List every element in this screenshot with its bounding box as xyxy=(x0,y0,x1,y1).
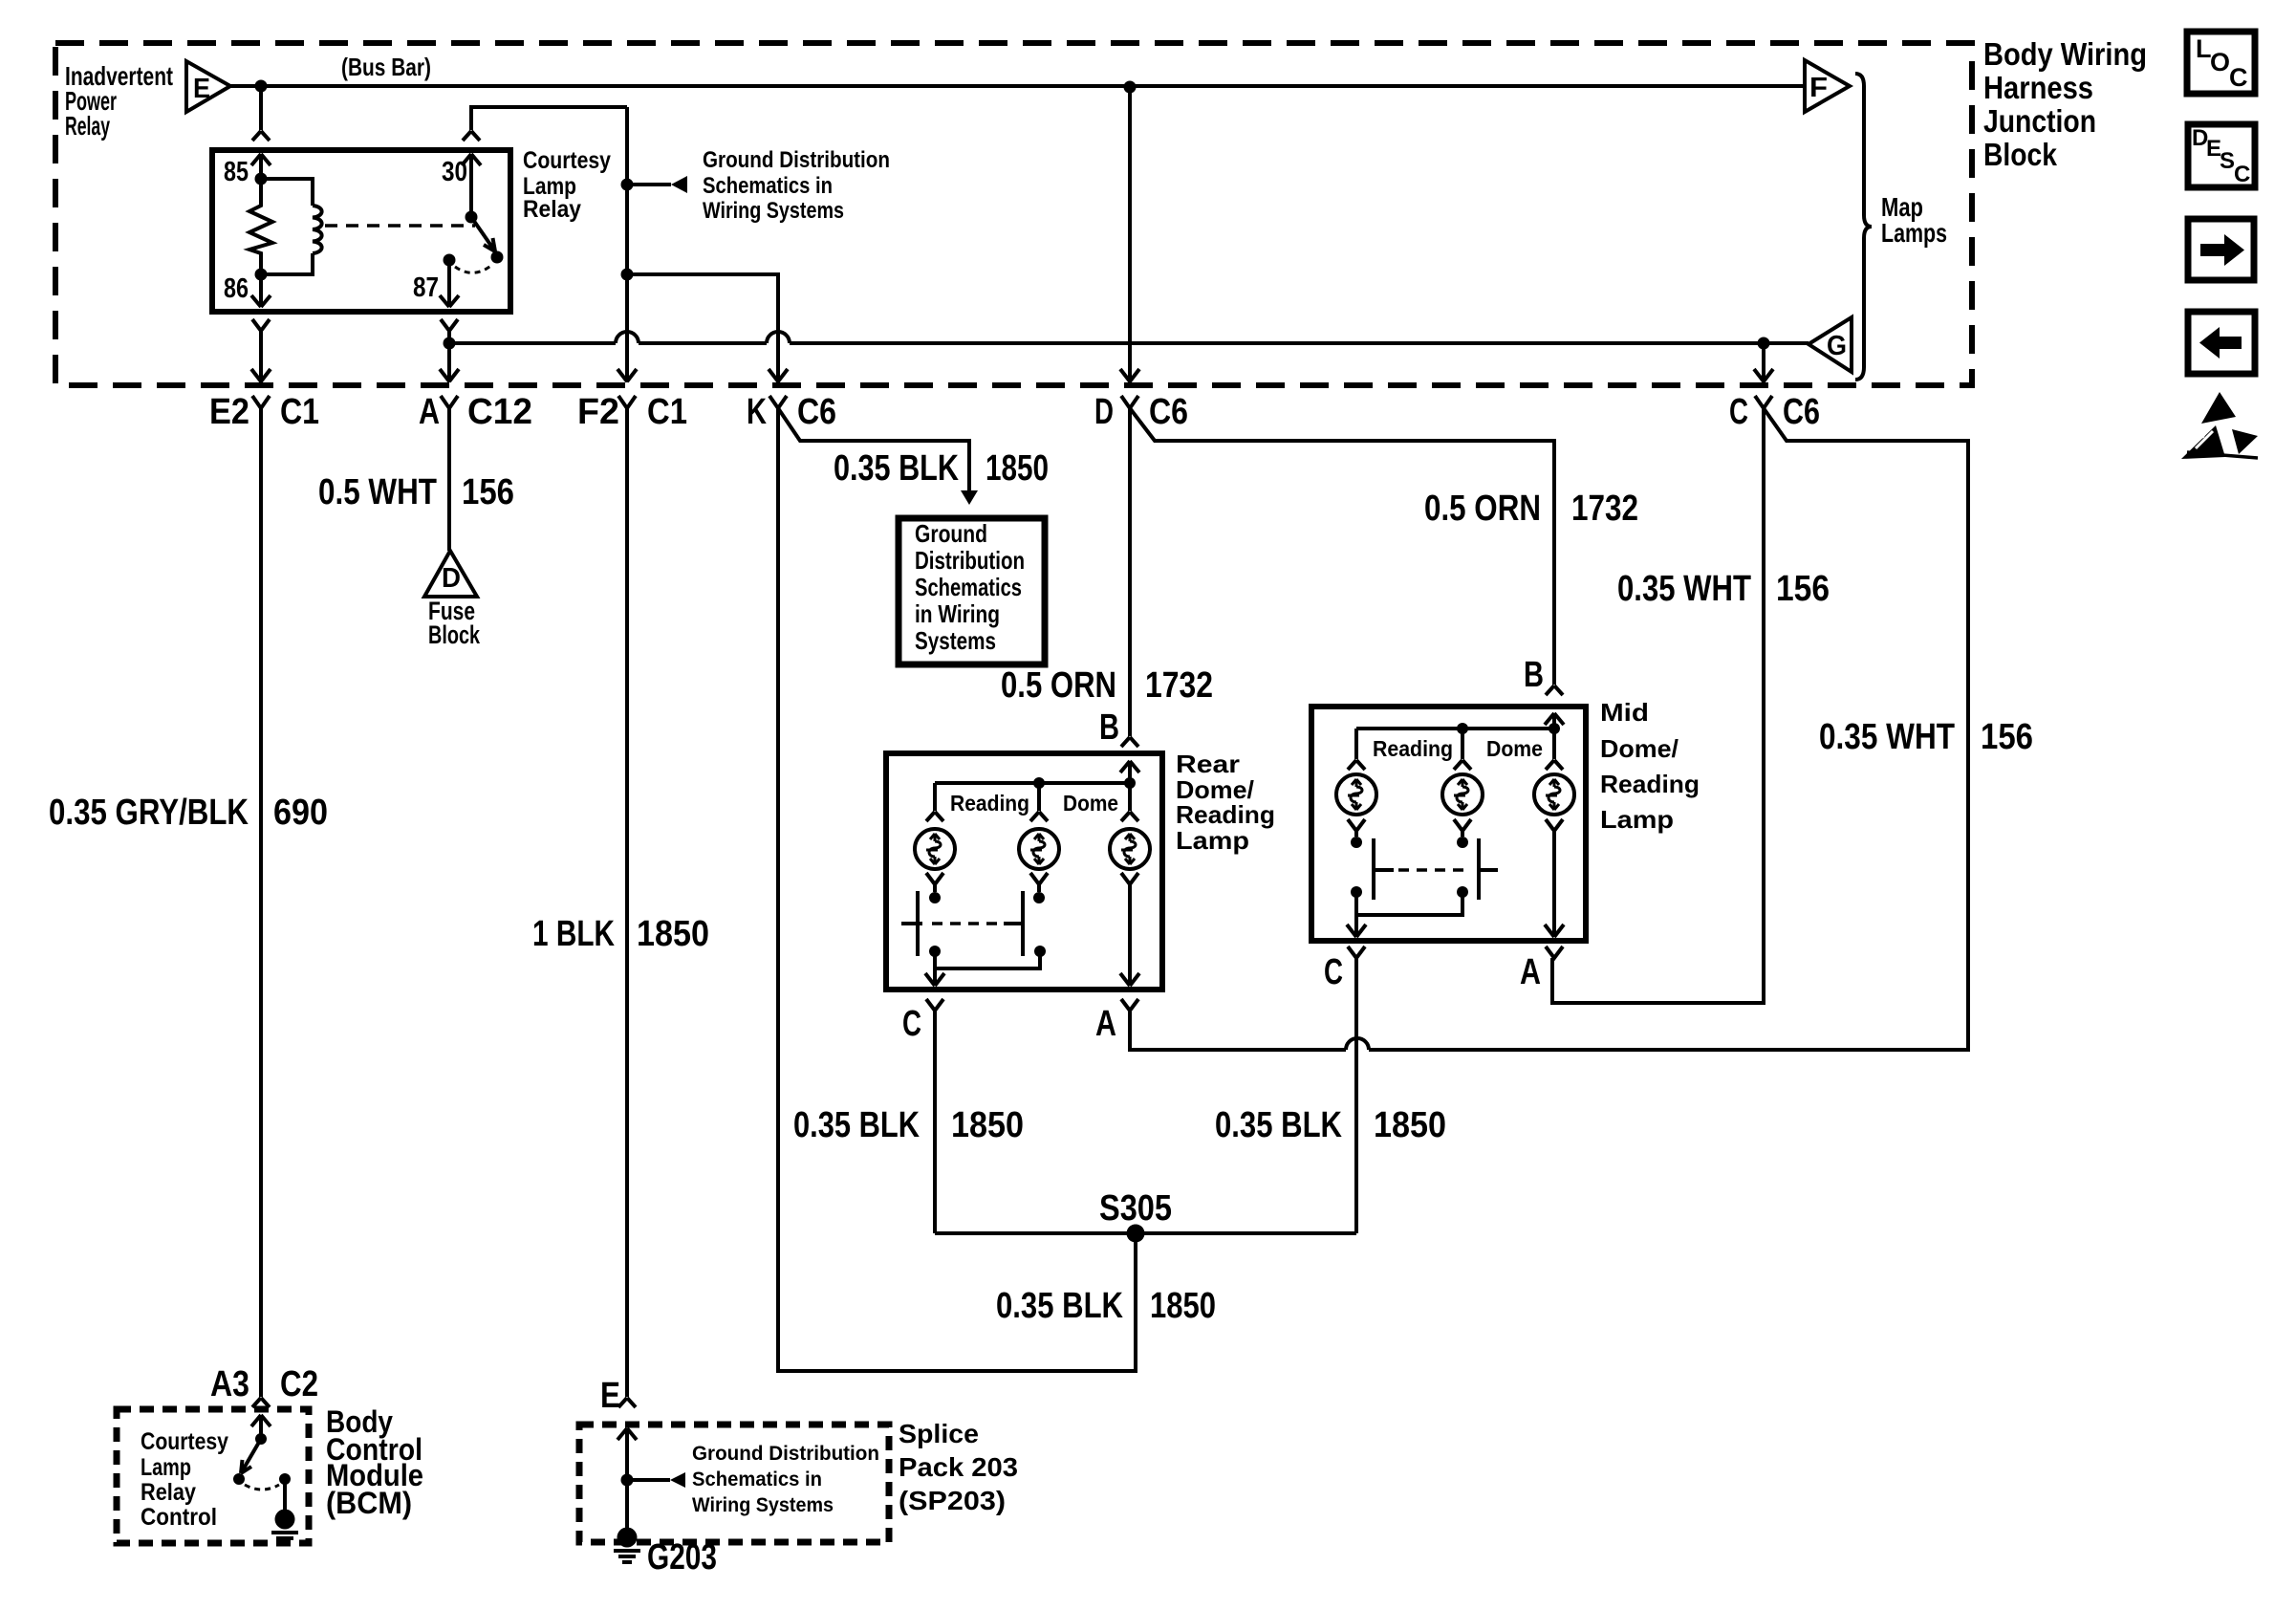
relay switch arm with arrowhead xyxy=(471,217,495,251)
wire hop over mid lamp C wire xyxy=(1346,1038,1369,1050)
node junction dot on bus bar at x=1182 xyxy=(1124,81,1137,94)
svg-text:Control: Control xyxy=(141,1504,217,1531)
wire hop over K riser xyxy=(767,332,790,343)
label Courtesy Lamp Relay xyxy=(523,147,611,223)
relay U1: Courtesy Lamp Relay box xyxy=(212,150,510,312)
node relay moving contact dot xyxy=(491,251,504,264)
svg-text:1850: 1850 xyxy=(637,914,709,954)
node BCM ground contact dot xyxy=(279,1473,291,1485)
svg-text:0.35 WHT: 0.35 WHT xyxy=(1819,717,1955,757)
label 0.35 WHT 156 (inner) xyxy=(1617,569,1830,609)
svg-text:Ground Distribution: Ground Distribution xyxy=(692,1443,879,1465)
svg-text:G: G xyxy=(1827,331,1847,361)
wire E2 run to BCM xyxy=(259,408,263,1397)
pin B arrow into rear box xyxy=(1120,761,1139,783)
svg-text:D: D xyxy=(442,563,461,594)
connector chevron female below relay pin 87 xyxy=(441,319,458,331)
wire mid dome lamp to A pin xyxy=(1545,831,1564,937)
arrow solid into ground box xyxy=(961,490,978,505)
terminal triangle E xyxy=(186,61,230,112)
pin 86 arrow out of relay xyxy=(251,274,271,307)
svg-text:1850: 1850 xyxy=(1374,1105,1446,1145)
wire coil branch top xyxy=(261,179,313,206)
svg-text:E: E xyxy=(193,74,210,104)
node mid rail dot right xyxy=(1549,723,1560,734)
wire bus bar to relay pin 85 xyxy=(259,86,263,130)
svg-text:Ground: Ground xyxy=(915,519,987,548)
svg-text:(Bus Bar): (Bus Bar) xyxy=(341,53,431,81)
svg-text:Dome/: Dome/ xyxy=(1600,734,1679,763)
resistor R1 in relay xyxy=(249,179,272,274)
svg-text:S: S xyxy=(2220,148,2235,174)
connector C12 pin A xyxy=(419,392,532,432)
node BCM arm end dot xyxy=(233,1473,245,1485)
svg-text:F2: F2 xyxy=(577,392,619,432)
node dot rail at C/C6 drop xyxy=(1758,337,1770,350)
ground symbol in BCM xyxy=(271,1479,298,1544)
svg-text:E: E xyxy=(600,1376,620,1416)
svg-text:Distribution: Distribution xyxy=(915,546,1025,575)
connector chevron female below rear box C xyxy=(926,999,943,1011)
label 0.35 BLK 1850 (K branch) xyxy=(834,448,1049,489)
lamp E1 rear reading left xyxy=(915,783,955,903)
svg-text:A: A xyxy=(1095,1004,1116,1044)
svg-text:Pack 203: Pack 203 xyxy=(899,1452,1018,1482)
node rear rail dot right xyxy=(1124,777,1136,789)
svg-text:C6: C6 xyxy=(1783,392,1820,432)
junction block dashed box: Body Wiring Harness Junction Block xyxy=(55,43,1972,385)
svg-text:Courtesy: Courtesy xyxy=(141,1428,228,1455)
wire D label branch to mid lamp B xyxy=(1130,408,1554,685)
connector C6 pin D xyxy=(1094,392,1188,432)
wire C main run to mid lamp A xyxy=(1552,408,1764,1003)
svg-text:C6: C6 xyxy=(1149,392,1188,432)
wire mid switch to C pin xyxy=(1347,915,1366,937)
node relay switch pivot dot xyxy=(466,211,478,224)
label 0.5 ORN 1732 (mid branch) xyxy=(1424,489,1638,529)
label 0.35 BLK 1850 (mid C) xyxy=(1215,1105,1446,1145)
svg-text:Reading: Reading xyxy=(1600,770,1700,798)
svg-text:(SP203): (SP203) xyxy=(899,1486,1006,1515)
connector chevron male at mid lamp B xyxy=(1546,685,1563,695)
svg-text:1732: 1732 xyxy=(1571,489,1638,529)
terminal triangle D fuse block xyxy=(424,551,477,597)
pin 87 arrow out of relay xyxy=(440,260,459,307)
svg-text:Dome: Dome xyxy=(1063,791,1118,816)
icon arrow right xyxy=(2188,219,2254,280)
wire K label branch to ground box xyxy=(778,408,969,491)
icon ESD symbol xyxy=(2181,392,2258,459)
connector chevron male at relay coil feed xyxy=(252,131,270,141)
svg-text:Schematics in: Schematics in xyxy=(692,1469,822,1490)
svg-text:0.5 ORN: 0.5 ORN xyxy=(1001,665,1116,706)
wire pin86 drop to border xyxy=(259,331,263,382)
wire coil branch bottom xyxy=(261,253,313,274)
wire mid box feed rail xyxy=(1356,727,1554,730)
svg-text:G203: G203 xyxy=(647,1537,717,1577)
wire pin30 to F2 riser xyxy=(471,107,627,130)
arrow down at border E2 xyxy=(251,369,271,381)
inductor L1 relay coil xyxy=(313,206,322,253)
node mid rail dot middle xyxy=(1457,723,1468,734)
wire pin87 drop to border xyxy=(447,331,451,382)
label 0.35 BLK 1850 (S305 down) xyxy=(996,1286,1216,1326)
svg-text:Reading: Reading xyxy=(1176,800,1275,829)
svg-text:1732: 1732 xyxy=(1145,665,1213,706)
svg-text:Body Wiring: Body Wiring xyxy=(1983,36,2147,72)
label Ground Distribution Schematics in Wiring Systems (top) xyxy=(703,147,890,224)
connector C6 pin C xyxy=(1729,392,1820,432)
node junction dot on bus bar at x=273 xyxy=(255,80,268,93)
lamp E5 mid reading right xyxy=(1442,729,1483,848)
svg-text:C12: C12 xyxy=(467,392,532,432)
lamp E6 mid dome xyxy=(1534,729,1574,831)
lamp E4 mid reading left xyxy=(1336,729,1376,848)
terminal triangle F xyxy=(1805,60,1850,112)
arrow down at border F2 xyxy=(617,369,637,381)
svg-text:(BCM): (BCM) xyxy=(326,1486,412,1520)
svg-text:C: C xyxy=(1324,952,1343,992)
svg-text:A: A xyxy=(1520,952,1541,992)
node relay pin85 dot xyxy=(255,173,268,185)
svg-text:Schematics in: Schematics in xyxy=(703,173,833,199)
arrow down at border A xyxy=(440,369,459,381)
wire C/C6 drop to border xyxy=(1762,343,1765,382)
brace Map Lamps xyxy=(1855,74,1872,380)
switch S mid (two-gang) xyxy=(1351,838,1498,915)
svg-text:A: A xyxy=(419,392,440,432)
wire rear switch to C pin xyxy=(925,968,944,986)
module box Body Control Module (dashed) xyxy=(117,1409,309,1543)
module box Rear Dome/Reading Lamp xyxy=(886,753,1162,990)
wire mid C run to S305 rail xyxy=(1354,958,1358,1233)
wire D main run to rear lamp B xyxy=(1128,408,1132,736)
label Body Wiring Harness Junction Block xyxy=(1983,36,2147,172)
label 1 BLK 1850 xyxy=(532,914,709,954)
wire A run to fuse block xyxy=(447,408,451,551)
connector chevron male above BCM xyxy=(252,1398,270,1407)
label Courtesy Lamp Relay Control xyxy=(141,1428,228,1531)
connector C1 pin F2 xyxy=(577,392,687,432)
label 0.35 GRY/BLK 690 xyxy=(49,793,328,833)
svg-text:Relay: Relay xyxy=(65,111,110,141)
svg-text:E2: E2 xyxy=(209,392,249,432)
svg-text:Mid: Mid xyxy=(1600,698,1649,727)
wire S305 rail xyxy=(935,1231,1356,1235)
svg-text:1 BLK: 1 BLK xyxy=(532,914,615,954)
svg-text:C: C xyxy=(2229,63,2248,92)
svg-text:Splice: Splice xyxy=(899,1419,979,1448)
pin B arrow into mid box xyxy=(1545,713,1564,729)
svg-text:1850: 1850 xyxy=(951,1105,1024,1145)
svg-text:Systems: Systems xyxy=(915,626,996,655)
icon arrow left xyxy=(2188,312,2255,374)
label 0.5 WHT 156 xyxy=(318,472,514,512)
svg-text:C1: C1 xyxy=(647,392,687,432)
wire bus bar xyxy=(230,84,1805,88)
wire D riser from bus bar xyxy=(1128,87,1132,382)
svg-text:Lamp: Lamp xyxy=(1176,826,1249,855)
off-page arrow ground distribution (top) xyxy=(627,176,687,193)
svg-text:Junction: Junction xyxy=(1983,103,2096,139)
svg-text:C1: C1 xyxy=(280,392,319,432)
svg-text:A3: A3 xyxy=(210,1364,249,1404)
terminal triangle G xyxy=(1809,317,1852,372)
arrow down at border D xyxy=(1120,369,1139,381)
svg-text:Courtesy: Courtesy xyxy=(523,147,611,174)
svg-text:S305: S305 xyxy=(1099,1188,1172,1229)
wire F2 run to splice pack xyxy=(625,408,629,1397)
lamp E3 rear dome xyxy=(1110,783,1150,884)
svg-text:Lamp: Lamp xyxy=(1600,805,1674,834)
label Body Control Module (BCM) xyxy=(326,1404,423,1520)
arrow down at border K xyxy=(769,369,788,381)
connector C1 pin E2 xyxy=(209,392,319,432)
ground G203 xyxy=(614,1480,640,1562)
pin E arrow into splice pack xyxy=(617,1428,637,1480)
svg-text:Block: Block xyxy=(428,620,481,649)
svg-text:Reading: Reading xyxy=(950,791,1029,816)
label 0.35 WHT 156 (right) xyxy=(1819,717,2033,757)
svg-text:1850: 1850 xyxy=(986,448,1049,489)
svg-text:85: 85 xyxy=(224,157,249,187)
icon LOC xyxy=(2187,32,2255,94)
splice S305 xyxy=(1127,1225,1145,1243)
connector chevron female below mid box C xyxy=(1348,946,1365,958)
svg-text:156: 156 xyxy=(1776,569,1830,609)
svg-text:1850: 1850 xyxy=(1150,1286,1216,1326)
svg-text:0.5 ORN: 0.5 ORN xyxy=(1424,489,1541,529)
wire rear C run to S305 rail xyxy=(933,1011,937,1233)
svg-text:Wiring Systems: Wiring Systems xyxy=(692,1494,834,1516)
wire relay87 horizontal rail y=359 with hops xyxy=(449,341,1809,345)
switch S rear (two-gang) xyxy=(901,891,1046,968)
svg-text:0.5 WHT: 0.5 WHT xyxy=(318,472,437,512)
svg-text:Rear: Rear xyxy=(1176,750,1240,778)
icon DESC xyxy=(2188,124,2255,187)
connector C2 pin A3 labels xyxy=(210,1364,318,1404)
svg-text:0.35 GRY/BLK: 0.35 GRY/BLK xyxy=(49,793,249,833)
svg-text:Schematics: Schematics xyxy=(915,573,1022,601)
BCM driver switch arm with arrowhead xyxy=(241,1439,261,1473)
wire hop over F2 riser xyxy=(616,332,639,343)
svg-text:690: 690 xyxy=(273,793,328,833)
connector chevron male above pin 30 xyxy=(463,131,480,141)
svg-text:0.35 BLK: 0.35 BLK xyxy=(793,1105,920,1145)
module box Mid Dome/Reading Lamp xyxy=(1311,707,1586,941)
svg-text:C: C xyxy=(902,1004,921,1044)
pin A3 arrow into BCM xyxy=(251,1415,271,1439)
svg-text:Relay: Relay xyxy=(523,196,581,223)
node dot F2 riser to K branch xyxy=(621,269,634,281)
wire dashed contact travel arc xyxy=(455,264,493,272)
svg-text:0.35 BLK: 0.35 BLK xyxy=(834,448,959,489)
svg-text:Block: Block xyxy=(1983,137,2058,172)
label Splice Pack 203 (SP203) xyxy=(899,1419,1018,1515)
node relay pin87 contact dot xyxy=(444,254,456,267)
label 0.35 BLK 1850 (rear C) xyxy=(793,1105,1024,1145)
svg-text:O: O xyxy=(2210,48,2230,76)
node rear rail dot middle xyxy=(1033,777,1045,789)
label Ground Distribution Schematics in Wiring Systems (mid box) xyxy=(915,519,1025,655)
connector chevron male above splice pack xyxy=(618,1398,636,1407)
svg-text:0.35 BLK: 0.35 BLK xyxy=(996,1286,1123,1326)
node BCM switch pivot dot xyxy=(255,1433,267,1445)
pin 30 arrow into relay xyxy=(462,154,481,217)
svg-text:86: 86 xyxy=(224,273,249,304)
wire C label branch right side xyxy=(1130,408,1968,1050)
off-page arrow ground distribution (splice) xyxy=(627,1472,685,1488)
label Rear Dome/Reading Lamp xyxy=(1176,750,1275,855)
svg-text:D: D xyxy=(1094,392,1114,432)
node splice dot xyxy=(621,1474,634,1487)
svg-text:Wiring Systems: Wiring Systems xyxy=(703,198,844,224)
node dot F2 riser ground-ref tap xyxy=(621,179,634,191)
svg-text:156: 156 xyxy=(1981,717,2033,757)
svg-text:C6: C6 xyxy=(797,392,836,432)
svg-text:in Wiring: in Wiring xyxy=(915,599,1000,628)
svg-text:K: K xyxy=(747,392,767,432)
arrow down at border C xyxy=(1754,369,1773,381)
svg-text:87: 87 xyxy=(413,272,439,303)
label Map Lamps xyxy=(1881,192,1947,248)
box Ground Distribution Schematics (mid) xyxy=(899,518,1045,664)
connector chevron female below relay pin 86 xyxy=(252,319,270,331)
svg-text:30: 30 xyxy=(442,157,467,187)
label Fuse Block xyxy=(428,597,481,649)
lamp E2 rear reading right xyxy=(1019,783,1059,903)
svg-text:C: C xyxy=(1729,392,1748,432)
svg-text:156: 156 xyxy=(462,472,514,512)
wire F2 riser x=656 xyxy=(625,107,629,382)
svg-text:C2: C2 xyxy=(280,1364,318,1404)
label 0.5 ORN 1732 (rear) xyxy=(1001,665,1213,706)
svg-text:Relay: Relay xyxy=(141,1479,196,1506)
svg-text:F: F xyxy=(1809,73,1828,103)
module box Splice Pack (dashed) xyxy=(579,1425,889,1542)
svg-text:B: B xyxy=(1524,655,1544,695)
connector C6 pin K xyxy=(747,392,836,432)
svg-text:Dome: Dome xyxy=(1486,736,1543,761)
pin 85 arrow into relay xyxy=(251,154,271,179)
connector chevron male at rear lamp B xyxy=(1121,737,1138,747)
wire dashed BCM contact travel arc xyxy=(245,1485,279,1490)
node relay pin86 dot xyxy=(255,269,268,281)
wire K main run xyxy=(778,408,1136,1371)
label Mid Dome/Reading Lamp xyxy=(1600,698,1700,834)
svg-text:0.35 WHT: 0.35 WHT xyxy=(1617,569,1751,609)
wire rear box feed rail xyxy=(935,781,1130,785)
svg-text:Lamps: Lamps xyxy=(1881,218,1947,248)
svg-text:B: B xyxy=(1099,707,1119,748)
connector chevron female below rear box A xyxy=(1121,999,1138,1011)
svg-text:Lamp: Lamp xyxy=(141,1454,191,1481)
svg-text:Reading: Reading xyxy=(1373,736,1453,761)
svg-text:C: C xyxy=(2234,162,2250,187)
wire K branch horizontal y=287 xyxy=(627,274,778,382)
label Inadvertent Power Relay xyxy=(65,61,173,141)
label Ground Distribution Schematics in Wiring Systems (splice) xyxy=(692,1443,879,1516)
svg-text:0.35 BLK: 0.35 BLK xyxy=(1215,1105,1342,1145)
wire dashed relay actuation link xyxy=(325,224,475,228)
svg-text:Ground Distribution: Ground Distribution xyxy=(703,147,890,173)
connector chevron female below mid box A xyxy=(1546,946,1563,958)
svg-text:Harness: Harness xyxy=(1983,70,2093,105)
wire rear dome lamp to A pin xyxy=(1120,884,1139,986)
node dot rail at pin87 drop xyxy=(444,337,456,350)
